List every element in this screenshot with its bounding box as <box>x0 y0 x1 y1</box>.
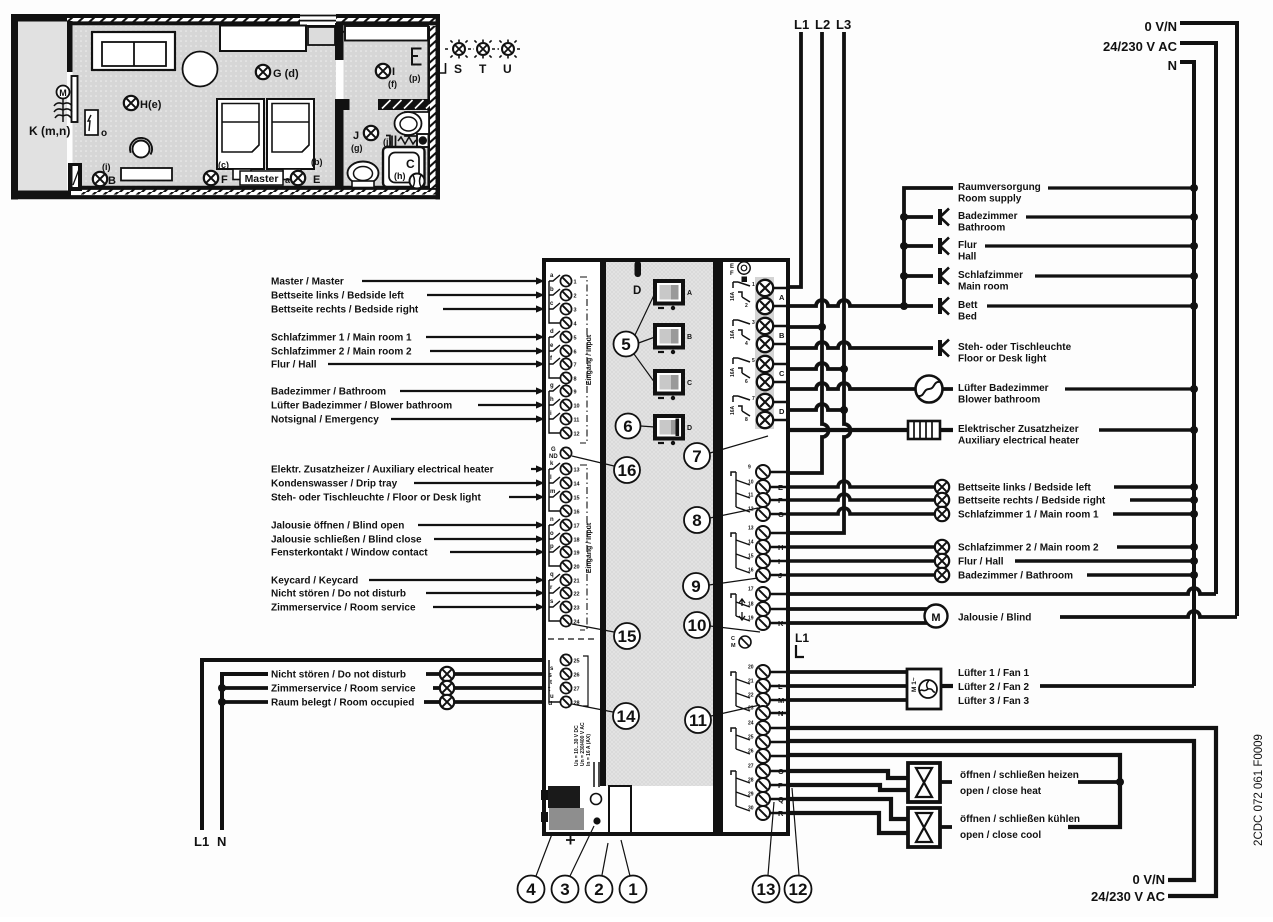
blind motor M <box>925 605 948 628</box>
bathroom divider wall <box>378 99 430 110</box>
load label Bett <box>958 300 1198 323</box>
svg-text:P: P <box>778 781 783 790</box>
fixture p <box>412 49 422 65</box>
svg-text:(j): (j) <box>383 137 392 147</box>
N bus bottom left <box>222 674 268 830</box>
output terminal group HIJ <box>731 526 790 583</box>
relay output terminals D <box>730 394 790 428</box>
svg-text:20: 20 <box>574 565 580 571</box>
svg-text:F: F <box>221 174 228 186</box>
svg-text:5: 5 <box>752 358 755 364</box>
svg-text:19: 19 <box>574 551 580 557</box>
svg-text:10: 10 <box>688 616 707 635</box>
svg-text:Fensterkontakt / Window contac: Fensterkontakt / Window contact <box>271 548 428 559</box>
floor plan room outline <box>11 15 440 200</box>
input row Badezimmer y391 <box>271 387 545 398</box>
input row Flur y364 <box>271 360 545 371</box>
svg-text:Bettseite links / Bedside left: Bettseite links / Bedside left <box>271 291 404 302</box>
svg-text:A: A <box>779 293 785 302</box>
output terminal group K <box>731 587 790 631</box>
blower fan symbol <box>916 376 943 403</box>
svg-text:Notsignal / Emergency: Notsignal / Emergency <box>271 415 379 426</box>
input terminal group klm <box>549 461 581 517</box>
svg-text:Master / Master: Master / Master <box>271 277 344 288</box>
indicator row Nicht stören <box>271 667 552 681</box>
svg-text:B: B <box>687 334 692 341</box>
svg-text:J: J <box>353 130 359 142</box>
svg-text:Badezimmer / Bathroom: Badezimmer / Bathroom <box>958 571 1073 582</box>
svg-text:q: q <box>550 572 554 578</box>
antenna M <box>54 86 72 123</box>
svg-text:E: E <box>313 174 320 186</box>
svg-text:ND: ND <box>549 454 558 460</box>
output terminal group S T U <box>549 654 588 707</box>
svg-text:C: C <box>406 157 415 171</box>
svg-text:Elektrischer Zusatzheizer: Elektrischer Zusatzheizer <box>958 424 1079 435</box>
input row Kondenswasser y483 <box>271 479 545 490</box>
svg-text:15: 15 <box>574 496 580 502</box>
svg-text:Main room: Main room <box>958 282 1009 293</box>
input row Bettseite rechts y309 <box>271 305 545 316</box>
svg-text:Lüfter 1 / Fan 1: Lüfter 1 / Fan 1 <box>958 668 1030 679</box>
svg-text:B: B <box>779 331 785 340</box>
svg-text:Keycard / Keycard: Keycard / Keycard <box>271 576 358 587</box>
svg-text:9: 9 <box>691 577 700 596</box>
svg-text:Schlafzimmer 2 / Main room 2: Schlafzimmer 2 / Main room 2 <box>271 347 412 358</box>
svg-text:8: 8 <box>574 377 577 383</box>
input terminal group qrs <box>549 572 581 627</box>
svg-text:Floor or Desk light: Floor or Desk light <box>958 354 1047 365</box>
svg-text:u: u <box>548 700 552 707</box>
lamp B <box>93 172 107 186</box>
callout 13 <box>753 802 780 903</box>
svg-text:20: 20 <box>748 665 754 671</box>
svg-text:27: 27 <box>748 764 754 770</box>
dashed separator line <box>548 638 598 640</box>
svg-text:5: 5 <box>574 336 577 342</box>
svg-text:s: s <box>548 672 552 679</box>
svg-text:18: 18 <box>574 538 580 544</box>
input row Jalousie öffnen y525 <box>271 521 545 532</box>
svg-text:9: 9 <box>748 465 751 471</box>
svg-text:14: 14 <box>617 707 636 726</box>
svg-text:2: 2 <box>745 303 748 309</box>
toilet <box>348 162 379 188</box>
svg-text:M 1~: M 1~ <box>911 677 918 692</box>
input row Bettseite links y295 <box>271 291 545 302</box>
output terminal group LMN <box>731 665 790 721</box>
svg-text:24: 24 <box>748 721 754 727</box>
svg-text:Blower bathroom: Blower bathroom <box>958 395 1040 406</box>
wire 24/230 supply to K <box>790 588 1216 594</box>
interior wall room/hall <box>335 23 350 188</box>
blind motor wires <box>790 609 928 623</box>
svg-text:M: M <box>931 612 940 624</box>
svg-text:M: M <box>731 643 736 649</box>
input row Jalousie schließen y539 <box>271 535 545 546</box>
svg-text:12: 12 <box>574 432 580 438</box>
lamp H(e) <box>124 96 138 110</box>
load label Steh- oder Tischleuchte <box>958 342 1072 365</box>
svg-text:16A: 16A <box>730 405 736 415</box>
valve cool <box>908 808 952 847</box>
input row Elektr. Zusatzheizer y469 <box>271 465 545 476</box>
svg-text:Master: Master <box>245 173 279 185</box>
svg-text:m: m <box>550 489 555 495</box>
rocker switch D <box>655 416 692 445</box>
svg-text:h: h <box>550 397 554 403</box>
wall lamp Bett <box>940 298 949 315</box>
svg-text:(h): (h) <box>394 171 406 181</box>
device separator bar right <box>713 262 723 832</box>
svg-text:5: 5 <box>621 335 630 354</box>
device separator bar left <box>600 262 606 786</box>
washbasin <box>395 112 430 136</box>
svg-text:In = 16 A (AX): In = 16 A (AX) <box>586 734 592 766</box>
svg-text:17: 17 <box>574 524 580 530</box>
device U1 room controller outline <box>544 260 788 834</box>
svg-text:U: U <box>503 62 512 76</box>
svg-text:F: F <box>730 271 734 277</box>
svg-text:24/230 V AC: 24/230 V AC <box>1091 889 1166 904</box>
svg-text:12: 12 <box>789 880 808 899</box>
svg-text:Kondenswasser / Drip tray: Kondenswasser / Drip tray <box>271 479 398 490</box>
svg-text:7: 7 <box>574 363 577 369</box>
svg-text:Schlafzimmer: Schlafzimmer <box>958 270 1023 281</box>
svg-text:(b): (b) <box>311 157 323 167</box>
svg-text:Hall: Hall <box>958 252 977 263</box>
svg-text:17: 17 <box>748 587 754 593</box>
valve supply wire <box>790 755 1120 827</box>
svg-text:R: R <box>778 809 784 818</box>
svg-text:Lüfter 2 / Fan 2: Lüfter 2 / Fan 2 <box>958 682 1030 693</box>
svg-text:E: E <box>778 483 783 492</box>
lamp row Schlafzimmer 1 <box>790 507 1198 521</box>
svg-text:Jalousie schließen / Blind clo: Jalousie schließen / Blind close <box>271 535 422 546</box>
svg-text:Nicht stören / Do not disturb: Nicht stören / Do not disturb <box>271 670 406 681</box>
svg-text:3: 3 <box>574 308 577 314</box>
indicator row Raum belegt <box>218 695 552 709</box>
svg-text:o: o <box>550 531 554 537</box>
spec text rotated <box>574 722 592 766</box>
svg-text:G (d): G (d) <box>273 68 299 80</box>
svg-text:N: N <box>217 834 226 849</box>
input terminal group abc <box>549 273 578 329</box>
svg-text:Raum belegt / Room occupied: Raum belegt / Room occupied <box>271 698 414 709</box>
svg-text:D: D <box>779 407 785 416</box>
svg-text:Nicht stören / Do not disturb: Nicht stören / Do not disturb <box>271 589 406 600</box>
svg-text:D: D <box>687 425 692 432</box>
svg-text:16: 16 <box>618 461 637 480</box>
lamp J(g) <box>364 126 378 140</box>
svg-text:4: 4 <box>526 880 536 899</box>
svg-text:1: 1 <box>752 282 755 288</box>
svg-text:L1: L1 <box>194 834 209 849</box>
svg-text:2: 2 <box>574 294 577 300</box>
svg-text:S: S <box>454 62 462 76</box>
dash-dot bracket Eingang Input lower <box>580 465 593 630</box>
bathtub <box>383 147 425 189</box>
svg-text:Schlafzimmer 1 / Main room 1: Schlafzimmer 1 / Main room 1 <box>958 510 1099 521</box>
svg-text:M: M <box>778 696 784 705</box>
svg-text:(g): (g) <box>351 143 363 153</box>
panel LED pill icon <box>635 261 642 277</box>
svg-text:Bed: Bed <box>958 312 977 323</box>
svg-text:(p): (p) <box>409 73 421 83</box>
callout 10 <box>684 612 760 638</box>
svg-text:Bathroom: Bathroom <box>958 223 1005 234</box>
svg-text:G: G <box>551 447 556 453</box>
svg-text:16A: 16A <box>730 367 736 377</box>
input row Steh- oder Tischleuchte y497 <box>271 493 545 504</box>
callout 6 <box>616 414 656 439</box>
load label Badezimmer <box>958 211 1198 234</box>
round table <box>183 52 218 87</box>
svg-text:d: d <box>550 329 554 335</box>
rocker switch C <box>655 371 692 400</box>
wire B1 from L2 <box>790 325 822 329</box>
svg-text:(c): (c) <box>218 160 229 170</box>
svg-text:0 V/N: 0 V/N <box>1132 872 1165 887</box>
svg-text:C: C <box>687 380 692 387</box>
svg-text:(f): (f) <box>388 79 397 89</box>
svg-text:25: 25 <box>574 659 580 665</box>
svg-text:E: E <box>730 264 734 270</box>
device center gray panel <box>606 262 713 786</box>
ground terminal GND <box>549 447 572 460</box>
wall window top <box>300 14 336 27</box>
svg-text:0 V/N: 0 V/N <box>1144 19 1177 34</box>
svg-text:21: 21 <box>574 579 580 585</box>
wall lamp Flur <box>940 238 949 255</box>
rocker switch B <box>655 325 692 354</box>
supply wire 0V/N bottom <box>790 741 1194 880</box>
lamp row Schlafzimmer 2 <box>790 540 1198 554</box>
heater symbol <box>908 421 940 439</box>
svg-text:13: 13 <box>748 526 754 532</box>
svg-text:o: o <box>101 128 107 139</box>
callout 9 <box>683 573 758 599</box>
svg-text:n: n <box>550 517 554 523</box>
input terminal group def <box>549 329 577 384</box>
sideboard bench <box>121 168 172 181</box>
wire D2 heater <box>790 428 953 432</box>
svg-text:1: 1 <box>628 880 637 899</box>
valve cool wires <box>790 799 908 833</box>
svg-text:Badezimmer / Bathroom: Badezimmer / Bathroom <box>271 387 386 398</box>
callout 4 <box>518 834 553 903</box>
callout 3 <box>552 826 595 903</box>
indicator row Zimmerservice <box>218 681 551 695</box>
closet hall <box>345 26 428 41</box>
svg-text:Flur: Flur <box>958 240 977 251</box>
svg-text:H: H <box>778 543 783 552</box>
svg-text:Eingang / Input: Eingang / Input <box>586 522 593 573</box>
programming LED <box>593 817 600 824</box>
desk <box>220 26 306 52</box>
device output raceway <box>755 277 774 429</box>
svg-text:7: 7 <box>692 447 701 466</box>
svg-text:open / close heat: open / close heat <box>960 786 1042 797</box>
blind arrows K group <box>739 599 745 620</box>
input row Zimmerservice y607 <box>271 603 545 614</box>
svg-text:H(e): H(e) <box>140 99 162 111</box>
load label Elektrischer Zusatzheizer <box>958 424 1198 447</box>
svg-text:öffnen / schließen heizen: öffnen / schließen heizen <box>960 770 1079 781</box>
input row Lüfter Badezimmer y405 <box>271 401 545 412</box>
lamp row Badezimmer <box>790 568 1198 582</box>
svg-text:24/230 V AC: 24/230 V AC <box>1103 39 1178 54</box>
svg-text:14: 14 <box>574 482 581 488</box>
svg-text:11: 11 <box>574 418 580 424</box>
svg-text:J: J <box>778 571 782 580</box>
device label holder <box>609 786 631 833</box>
svg-text:3: 3 <box>560 880 569 899</box>
svg-text:Zimmerservice / Room service: Zimmerservice / Room service <box>271 603 416 614</box>
svg-text:6: 6 <box>745 379 748 385</box>
svg-text:Badezimmer: Badezimmer <box>958 211 1018 222</box>
load label Lüfter Badezimmer <box>958 383 1198 406</box>
sofa <box>92 32 175 70</box>
input row Keycard y580 <box>271 576 545 587</box>
fan box <box>907 669 941 709</box>
dash-dot bracket Eingang Input upper <box>580 277 593 443</box>
svg-text:Bett: Bett <box>958 300 978 311</box>
svg-text:N: N <box>1168 58 1177 73</box>
callout 12 <box>785 788 812 903</box>
svg-text:11: 11 <box>689 711 707 730</box>
switch box o <box>85 110 98 135</box>
lamp row Flur <box>790 554 1198 568</box>
svg-text:16A: 16A <box>730 329 736 339</box>
relay output terminals B <box>730 318 790 352</box>
svg-text:L1: L1 <box>795 631 809 645</box>
svg-text:23: 23 <box>574 606 580 612</box>
svg-text:L3: L3 <box>836 17 851 32</box>
signal lamps S T U <box>445 40 522 77</box>
svg-text:Flur / Hall: Flur / Hall <box>271 360 317 371</box>
KNX bus connector <box>541 786 584 845</box>
supply wire 24/230 bottom <box>790 728 1216 896</box>
svg-text:22: 22 <box>574 592 580 598</box>
svg-text:O: O <box>778 767 784 776</box>
svg-text:Bettseite rechts / Bedside rig: Bettseite rechts / Bedside right <box>271 305 419 316</box>
svg-text:Steh- oder Tischleuchte: Steh- oder Tischleuchte <box>958 342 1072 353</box>
door jamb living room <box>68 163 82 191</box>
bed <box>217 99 264 180</box>
svg-text:2CDC 072 061 F0009: 2CDC 072 061 F0009 <box>1253 734 1265 846</box>
washing machine j <box>386 134 429 147</box>
wall lamp Stehleuchte <box>940 340 949 357</box>
wall lamp Badezimmer <box>940 209 949 226</box>
armchair <box>130 138 152 158</box>
callout 5 <box>614 293 656 383</box>
svg-text:Bettseite links / Bedside left: Bettseite links / Bedside left <box>958 483 1091 494</box>
svg-text:8: 8 <box>692 511 701 530</box>
svg-text:Q: Q <box>778 795 784 804</box>
svg-text:16A: 16A <box>730 291 736 301</box>
svg-text:I: I <box>778 557 780 566</box>
wall tick right of plan <box>440 63 446 73</box>
svg-text:7: 7 <box>752 396 755 402</box>
input row Schlafzimmer 1 y337 <box>271 333 545 344</box>
branch bus room lights <box>904 188 953 306</box>
rocker switch A <box>655 281 692 310</box>
balcony dividing wall <box>67 21 73 72</box>
fan wires <box>790 672 907 700</box>
input row Master y281 <box>271 277 545 288</box>
svg-text:L1: L1 <box>794 17 809 32</box>
svg-text:9: 9 <box>574 390 577 396</box>
svg-text:Lüfter 3 / Fan 3: Lüfter 3 / Fan 3 <box>958 696 1030 707</box>
svg-text:10: 10 <box>574 404 580 410</box>
svg-text:b: b <box>550 287 554 293</box>
svg-text:15: 15 <box>618 627 637 646</box>
svg-text:13: 13 <box>757 880 776 899</box>
wire D1 from L3 <box>790 404 844 410</box>
input row Nicht stören y593 <box>271 589 545 600</box>
svg-text:Lüfter Badezimmer / Blower bat: Lüfter Badezimmer / Blower bathroom <box>271 401 452 412</box>
wire A2 to bed lights <box>790 300 933 306</box>
input terminal group nop <box>549 517 580 572</box>
callout 16 <box>572 456 640 483</box>
svg-text:Jalousie / Blind: Jalousie / Blind <box>958 613 1031 624</box>
svg-text:Zimmerservice / Room service: Zimmerservice / Room service <box>271 684 416 695</box>
svg-text:Eingang / Input: Eingang / Input <box>586 334 593 385</box>
svg-text:B: B <box>108 175 116 187</box>
svg-text:M: M <box>59 88 67 98</box>
lamp row Bettseite rechts <box>790 493 1198 507</box>
svg-text:L: L <box>778 682 783 691</box>
wire C1 from L3 <box>790 363 844 369</box>
svg-text:Elektr. Zusatzheizer / Auxilia: Elektr. Zusatzheizer / Auxiliary electri… <box>271 465 494 476</box>
svg-text:G: G <box>778 510 784 519</box>
svg-text:3: 3 <box>752 320 755 326</box>
svg-text:F: F <box>778 496 783 505</box>
callout 8 <box>684 507 758 533</box>
wire C2 bathroom blower <box>790 383 953 389</box>
input row Fensterkontakt y552 <box>271 548 545 559</box>
lamp E <box>291 171 305 185</box>
svg-text:Lüfter Badezimmer: Lüfter Badezimmer <box>958 383 1049 394</box>
svg-text:Schlafzimmer 1 / Main room 1: Schlafzimmer 1 / Main room 1 <box>271 333 412 344</box>
svg-text:N: N <box>778 709 783 718</box>
svg-text:Auxiliary electrical heater: Auxiliary electrical heater <box>958 436 1079 447</box>
master label <box>240 171 283 185</box>
load label Flur <box>958 240 1198 263</box>
callout 1 <box>620 840 647 903</box>
lamp F <box>204 171 218 185</box>
L1 bus bottom left <box>202 660 545 830</box>
input row Schlafzimmer 2 y351 <box>271 347 545 358</box>
svg-text:T: T <box>479 62 487 76</box>
svg-text:Schlafzimmer 2 / Main room 2: Schlafzimmer 2 / Main room 2 <box>958 543 1099 554</box>
svg-text:1: 1 <box>574 280 577 286</box>
callout 15 <box>572 623 640 649</box>
programming button <box>591 762 602 805</box>
wire B2 floor lamp <box>790 342 933 348</box>
svg-text:6: 6 <box>574 350 577 356</box>
svg-text:26: 26 <box>574 673 580 679</box>
lamp G(d) <box>256 65 270 79</box>
svg-text:p: p <box>550 544 554 550</box>
svg-text:6: 6 <box>623 417 632 436</box>
svg-text:D: D <box>633 285 641 297</box>
svg-text:Steh- oder Tischleuchte / Floo: Steh- oder Tischleuchte / Floor or Desk … <box>271 493 482 504</box>
svg-text:Room supply: Room supply <box>958 194 1022 205</box>
svg-text:Flur / Hall: Flur / Hall <box>958 557 1004 568</box>
output terminal group EFG <box>731 465 790 522</box>
